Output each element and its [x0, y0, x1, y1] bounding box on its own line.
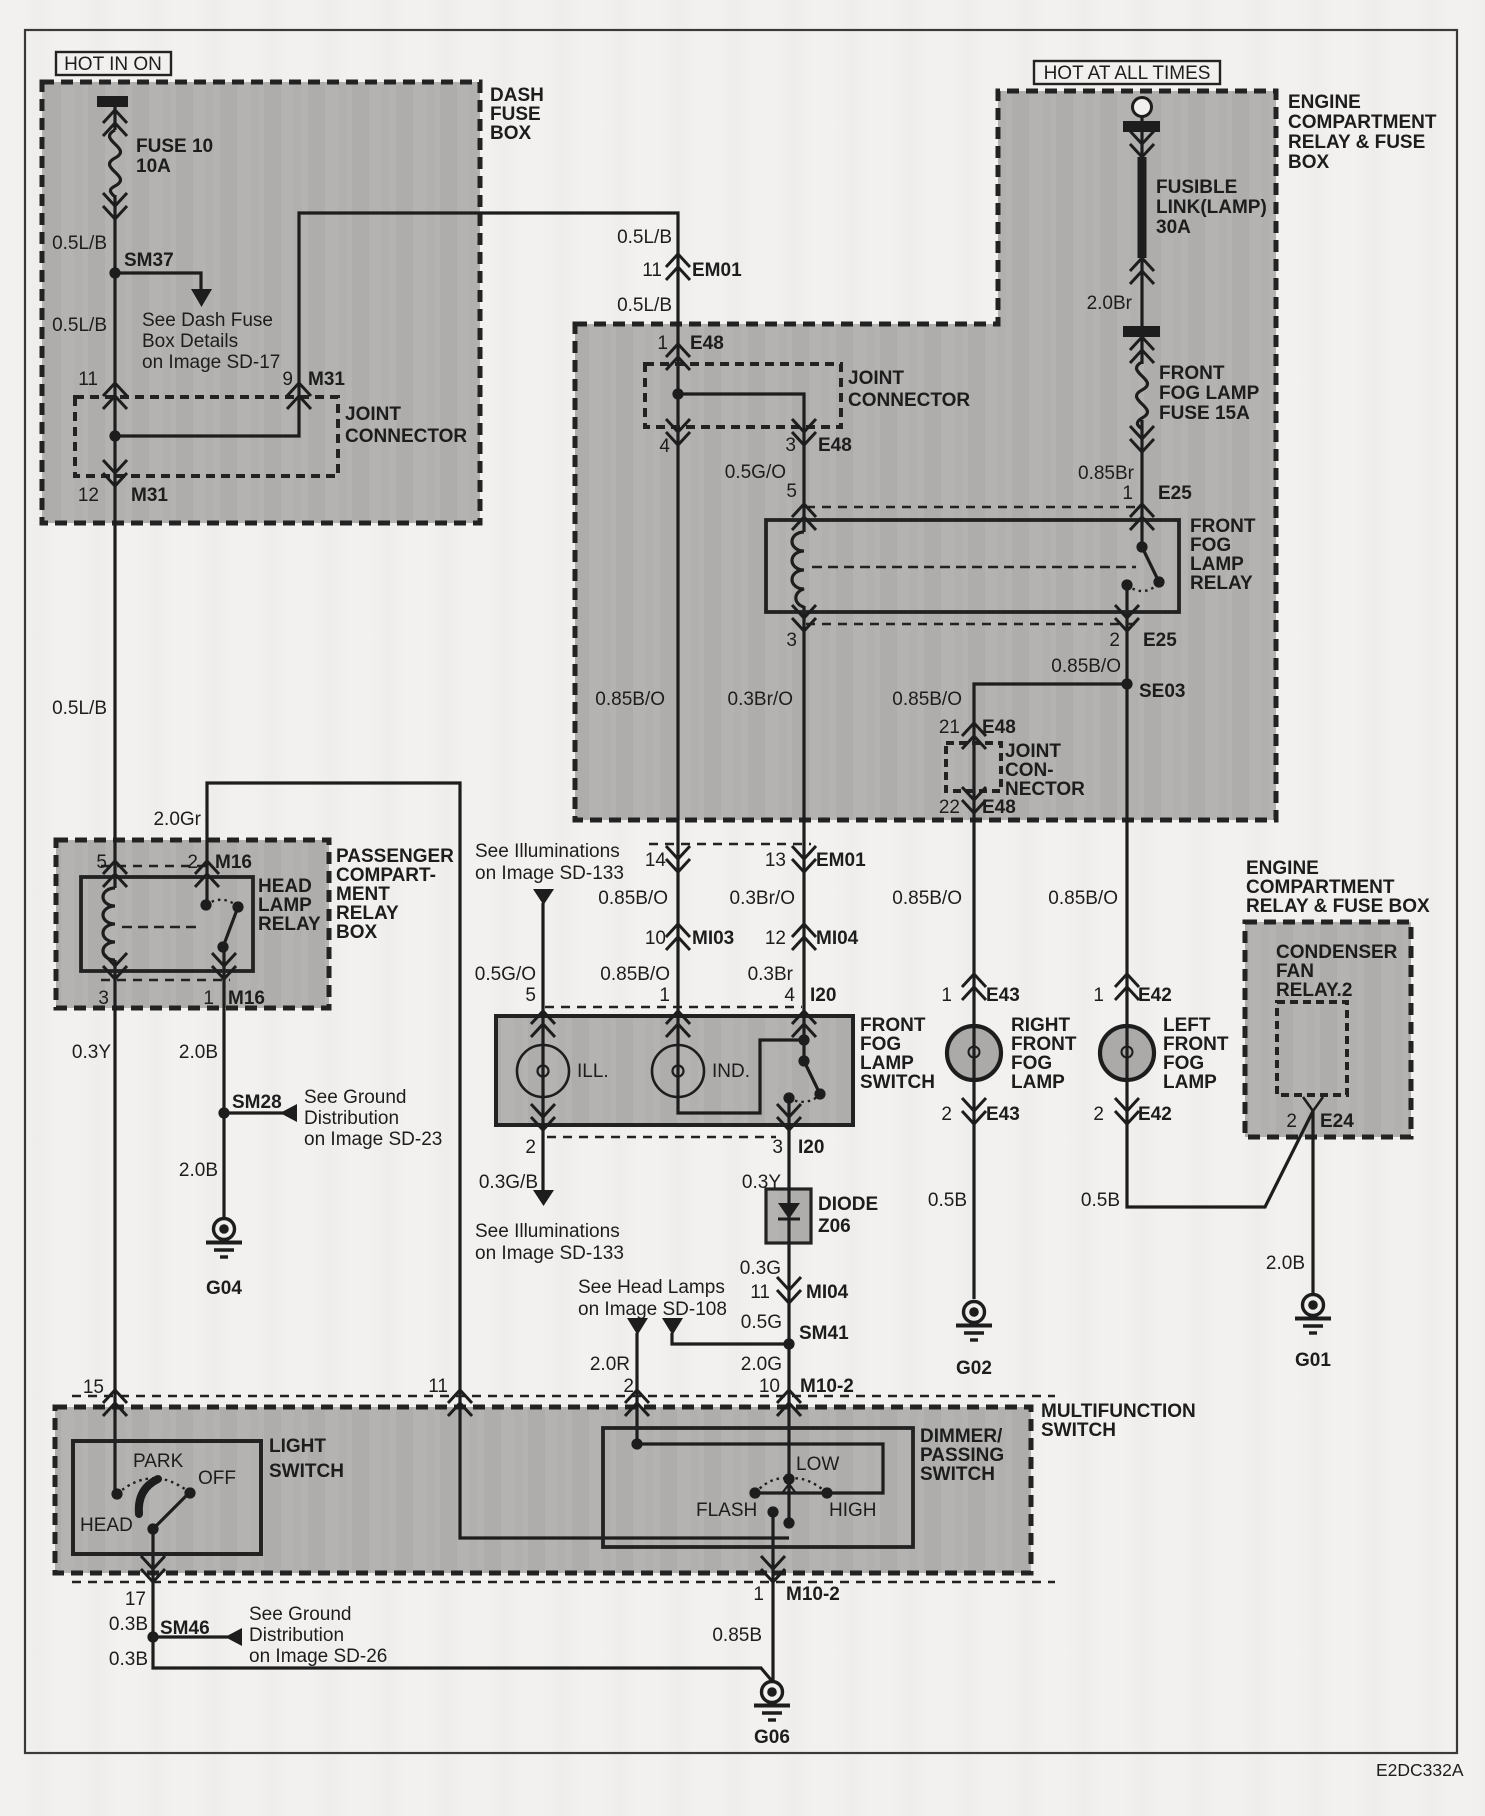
central + engine compartment shaded area: [575, 91, 1276, 820]
svg-text:2: 2: [1109, 630, 1120, 651]
relay contact: [200, 899, 211, 910]
svg-text:E25: E25: [1158, 483, 1192, 504]
ground G02: [956, 1302, 992, 1341]
svg-text:2.0R: 2.0R: [590, 1354, 630, 1375]
svg-text:I20: I20: [810, 985, 836, 1006]
svg-text:10: 10: [645, 928, 666, 949]
pin 21 E48: [962, 723, 986, 749]
svg-text:0.85B: 0.85B: [712, 1625, 762, 1646]
pin 1 E48: [666, 344, 690, 370]
reference arrow: see ground distribution SD-23: [280, 1104, 297, 1122]
pin 11 M31: [103, 383, 127, 409]
svg-text:FUSIBLE: FUSIBLE: [1156, 177, 1237, 198]
HOT IN ON label box: [56, 52, 171, 75]
dash fuse box shaded area: [42, 82, 480, 523]
svg-text:NECTOR: NECTOR: [1005, 779, 1085, 800]
lamp RIGHT FRONT FOG LAMP filament: [973, 1026, 975, 1046]
svg-text:E24: E24: [1320, 1111, 1354, 1132]
svg-text:on Image SD-26: on Image SD-26: [249, 1646, 387, 1667]
lamp IND: [652, 1045, 704, 1097]
svg-text:10: 10: [759, 1376, 780, 1397]
wire: light switch pivot to pin17, SM46, 0.3B run to G06: [153, 1529, 772, 1681]
svg-text:0.5B: 0.5B: [1081, 1190, 1120, 1211]
pin 10 MI03: [666, 924, 690, 950]
pin 5 I20: [531, 1011, 555, 1037]
svg-text:MULTIFUNCTION: MULTIFUNCTION: [1041, 1401, 1196, 1422]
svg-text:DIODE: DIODE: [818, 1194, 878, 1215]
svg-text:10A: 10A: [136, 156, 171, 177]
svg-text:M31: M31: [308, 369, 345, 390]
svg-text:5: 5: [786, 481, 797, 502]
relay internal dashed link: [812, 566, 1136, 568]
wire: fuse10 output 0.5L/B column (dash fuse box to light switch pin 15): [113, 107, 116, 1494]
pin 11 MI04: [777, 1277, 801, 1303]
svg-text:LINK(LAMP): LINK(LAMP): [1156, 197, 1267, 218]
svg-text:CONNECTOR: CONNECTOR: [848, 390, 970, 411]
wire: 2.0Gr headlamp relay pin2 to multifunction pin 11, to dimmer: [207, 783, 789, 1538]
svg-text:0.85B/O: 0.85B/O: [1048, 888, 1118, 909]
svg-text:0.85B/O: 0.85B/O: [892, 888, 962, 909]
svg-text:See Illuminations: See Illuminations: [475, 841, 620, 862]
junction node E48: [672, 388, 683, 399]
I20 pin row bottom (dashed): [547, 1136, 776, 1139]
svg-text:CONNECTOR: CONNECTOR: [345, 426, 467, 447]
svg-text:FOG: FOG: [860, 1034, 901, 1055]
svg-text:0.3B: 0.3B: [109, 1649, 148, 1670]
relay U2 HEAD LAMP RELAY box: [81, 877, 253, 971]
svg-text:JOINT: JOINT: [848, 368, 904, 389]
wire: relay blade contact: [1142, 547, 1159, 582]
svg-text:2.0B: 2.0B: [1266, 1253, 1305, 1274]
svg-text:See Ground: See Ground: [304, 1087, 406, 1108]
front fog lamp fuse 15A element: [1137, 362, 1148, 429]
svg-text:LAMP: LAMP: [1011, 1072, 1065, 1093]
svg-text:OFF: OFF: [198, 1468, 236, 1489]
svg-text:2.0B: 2.0B: [179, 1160, 218, 1181]
pin 1 E43: [962, 974, 986, 1000]
svg-text:LIGHT: LIGHT: [269, 1436, 326, 1457]
svg-text:SE03: SE03: [1139, 681, 1185, 702]
svg-text:FRONT: FRONT: [1190, 516, 1256, 537]
svg-text:M10-2: M10-2: [786, 1584, 840, 1605]
svg-text:COMPART-: COMPART-: [336, 865, 436, 886]
engine compartment relay & fuse box (condenser) shaded area: [1245, 922, 1411, 1137]
svg-text:G01: G01: [1295, 1350, 1331, 1371]
svg-text:1: 1: [203, 988, 214, 1009]
svg-text:ENGINE: ENGINE: [1246, 858, 1319, 879]
svg-text:13: 13: [765, 850, 786, 871]
svg-text:EM01: EM01: [816, 850, 866, 871]
pin 15: [103, 1390, 127, 1416]
svg-text:0.85Br: 0.85Br: [1078, 463, 1135, 484]
svg-text:E2DC332A: E2DC332A: [1376, 1760, 1464, 1780]
svg-text:MENT: MENT: [336, 884, 390, 905]
pin 3 E48: [792, 419, 816, 445]
svg-text:1: 1: [659, 985, 670, 1006]
svg-text:1: 1: [753, 1584, 764, 1605]
svg-text:2.0B: 2.0B: [179, 1042, 218, 1063]
diode Z06 box (fill layer): [766, 1189, 811, 1243]
svg-text:BOX: BOX: [490, 123, 532, 144]
node SM28: [218, 1107, 229, 1118]
svg-text:FRONT: FRONT: [1011, 1034, 1077, 1055]
E25 pin row (dashed): [806, 506, 1141, 509]
svg-text:11: 11: [428, 1376, 448, 1397]
switch S2 LIGHT SWITCH box: [73, 1441, 261, 1554]
svg-text:LOW: LOW: [796, 1454, 839, 1475]
svg-text:LAMP: LAMP: [1190, 554, 1244, 575]
svg-text:HOT IN ON: HOT IN ON: [64, 54, 162, 75]
svg-text:LAMP: LAMP: [1163, 1072, 1217, 1093]
svg-text:E43: E43: [986, 985, 1020, 1006]
relay coil: [792, 532, 804, 607]
svg-text:RELAY: RELAY: [336, 903, 399, 924]
switch contacts: [798, 1034, 809, 1045]
svg-text:COMPARTMENT: COMPARTMENT: [1288, 112, 1437, 133]
svg-text:PASSENGER: PASSENGER: [336, 846, 454, 867]
svg-text:SWITCH: SWITCH: [920, 1464, 995, 1485]
svg-text:FUSE: FUSE: [490, 104, 541, 125]
node SM37: [109, 267, 120, 278]
node SM41: [783, 1338, 794, 1349]
svg-text:0.5L/B: 0.5L/B: [52, 233, 107, 254]
svg-text:RIGHT: RIGHT: [1011, 1015, 1071, 1036]
svg-text:Box Details: Box Details: [142, 331, 238, 352]
svg-text:22: 22: [939, 797, 960, 818]
svg-text:0.5G/O: 0.5G/O: [725, 462, 786, 483]
pin 4 E48: [666, 419, 690, 445]
svg-text:30A: 30A: [1156, 217, 1191, 238]
svg-text:FLASH: FLASH: [696, 1500, 757, 1521]
svg-text:2: 2: [525, 1137, 536, 1158]
svg-text:0.85B/O: 0.85B/O: [1051, 656, 1121, 677]
M16 pin row bottom (dashed): [101, 979, 230, 982]
svg-text:E48: E48: [818, 435, 852, 456]
svg-text:2: 2: [187, 852, 198, 873]
relay contact: [1136, 541, 1147, 552]
pin 1 E42: [1115, 974, 1139, 1000]
svg-text:12: 12: [765, 928, 786, 949]
svg-text:HOT AT ALL TIMES: HOT AT ALL TIMES: [1044, 63, 1211, 84]
pin 1 M16: [212, 953, 236, 979]
multifunction switch shaded area: [55, 1407, 1031, 1573]
svg-text:0.3G: 0.3G: [740, 1258, 781, 1279]
wire: SM37 branch to See Dash Fuse Box Details: [115, 273, 201, 289]
svg-text:E42: E42: [1138, 985, 1172, 1006]
fuse 10 element (wavy): [110, 130, 121, 197]
svg-text:JOINT: JOINT: [345, 404, 401, 425]
svg-text:0.3G/B: 0.3G/B: [479, 1172, 538, 1193]
svg-text:17: 17: [125, 1589, 146, 1610]
left front fog lamp body: [1100, 1026, 1154, 1080]
wire: SM41 branch to See Head Lamps: [672, 1333, 789, 1344]
light switch HEAD position wiper (thick arc): [139, 1479, 158, 1514]
svg-text:9: 9: [282, 369, 293, 390]
svg-text:0.3Br/O: 0.3Br/O: [728, 689, 793, 710]
svg-text:E25: E25: [1143, 630, 1177, 651]
svg-text:See Head Lamps: See Head Lamps: [578, 1277, 725, 1298]
wire: illumination column 0.5G/O to fog switch ILL pin5, pin2 0.3G/B out: [541, 903, 544, 1190]
svg-text:See Dash Fuse: See Dash Fuse: [142, 310, 273, 331]
wire: SM46 branch: [153, 1635, 228, 1638]
svg-text:2: 2: [941, 1104, 952, 1125]
reference arrow: see ground distribution SD-26: [225, 1628, 242, 1646]
svg-text:1: 1: [941, 985, 952, 1006]
pin 2 I20: [531, 1104, 555, 1130]
svg-text:2: 2: [1286, 1111, 1297, 1132]
pin 11: [448, 1390, 472, 1416]
pin 11 EM01: [666, 254, 690, 280]
svg-text:0.3Br: 0.3Br: [748, 964, 794, 985]
svg-text:M10-2: M10-2: [800, 1376, 854, 1397]
svg-text:12: 12: [78, 485, 99, 506]
svg-text:SWITCH: SWITCH: [269, 1461, 344, 1482]
condenser fan relay.2 inner box: [1277, 1002, 1347, 1095]
node SM46: [147, 1631, 158, 1642]
svg-text:0.3B: 0.3B: [109, 1614, 148, 1635]
relay U1 FRONT FOG LAMP RELAY box: [766, 520, 1179, 612]
pin 2 E42: [1115, 1098, 1139, 1124]
svg-text:0.5G: 0.5G: [741, 1312, 782, 1333]
front fog lamp switch box (fill layer): [496, 1016, 853, 1125]
wire: joint connector M31 pin9 riser to EM01 pin 11 (0.5L/B): [115, 213, 678, 436]
svg-text:11: 11: [78, 369, 98, 390]
svg-text:2.0Br: 2.0Br: [1087, 293, 1133, 314]
svg-text:ILL.: ILL.: [577, 1061, 609, 1082]
svg-text:SM37: SM37: [124, 250, 174, 271]
svg-text:LEFT: LEFT: [1163, 1015, 1211, 1036]
svg-text:11: 11: [750, 1282, 770, 1303]
svg-text:2: 2: [1093, 1104, 1104, 1125]
diode Z06 symbol: [778, 1203, 800, 1219]
svg-text:11: 11: [642, 260, 662, 281]
wire: 2.0R column dimmer pin2 to See Head Lamps: [635, 1333, 638, 1444]
svg-text:0.3Y: 0.3Y: [742, 1172, 781, 1193]
wire: SM28 branch: [224, 1111, 283, 1114]
pin 4 I20: [792, 1011, 816, 1037]
light switch contacts: [111, 1488, 122, 1499]
svg-text:DIMMER/: DIMMER/: [920, 1426, 1003, 1447]
svg-text:5: 5: [96, 852, 107, 873]
pin 1 M10-2: [761, 1556, 785, 1582]
wire: relay pin2 E25 0.85B/O down through SE03 to left fog lamp and E24: [1127, 585, 1313, 1207]
pin 3 M16: [103, 953, 127, 979]
svg-text:0.5L/B: 0.5L/B: [52, 698, 107, 719]
svg-text:E43: E43: [986, 1104, 1020, 1125]
svg-text:1: 1: [1093, 985, 1104, 1006]
svg-text:0.5B: 0.5B: [928, 1190, 967, 1211]
svg-text:CON-: CON-: [1005, 760, 1054, 781]
reference arrow: see dash fuse box details: [191, 289, 212, 307]
svg-text:FRONT: FRONT: [1159, 363, 1225, 384]
svg-text:2: 2: [623, 1376, 634, 1397]
svg-text:SM41: SM41: [799, 1323, 849, 1344]
ground G04: [206, 1219, 242, 1258]
pin 3 I20: [777, 1104, 801, 1130]
svg-text:G06: G06: [754, 1727, 790, 1748]
pin 2 M10-2: [625, 1390, 649, 1416]
svg-text:JOINT: JOINT: [1005, 741, 1061, 762]
svg-text:HEAD: HEAD: [80, 1515, 133, 1536]
svg-text:FRONT: FRONT: [1163, 1034, 1229, 1055]
svg-text:DASH: DASH: [490, 85, 544, 106]
svg-text:21: 21: [939, 717, 960, 738]
svg-text:on Image SD-133: on Image SD-133: [475, 1243, 624, 1264]
svg-text:0.5L/B: 0.5L/B: [617, 295, 672, 316]
svg-text:MI03: MI03: [692, 928, 734, 949]
svg-text:FUSE 10: FUSE 10: [136, 136, 213, 157]
svg-text:ENGINE: ENGINE: [1288, 92, 1361, 113]
svg-text:COMPARTMENT: COMPARTMENT: [1246, 877, 1395, 898]
junction node in M31 connector: [109, 430, 120, 441]
pin 22 E48: [962, 787, 986, 813]
svg-text:E48: E48: [690, 333, 724, 354]
svg-text:0.85B/O: 0.85B/O: [600, 964, 670, 985]
svg-text:14: 14: [645, 850, 667, 871]
svg-text:SM28: SM28: [232, 1092, 282, 1113]
svg-text:4: 4: [784, 985, 795, 1006]
M10-2 pin row top (dashed): [72, 1395, 1055, 1398]
svg-text:LAMP: LAMP: [258, 895, 312, 916]
svg-text:0.3Y: 0.3Y: [72, 1042, 111, 1063]
svg-text:HEAD: HEAD: [258, 876, 312, 897]
svg-text:G04: G04: [206, 1278, 242, 1299]
svg-text:FOG: FOG: [1163, 1053, 1204, 1074]
node SE03: [1121, 678, 1132, 689]
wire: fog switch pin3 column through diode, SM41, to dimmer LOW: [787, 1098, 790, 1523]
fuse terminal bar: [1123, 326, 1160, 337]
pin 5 M16: [103, 861, 127, 887]
svg-text:See Illuminations: See Illuminations: [475, 1221, 620, 1242]
svg-text:FOG: FOG: [1011, 1053, 1052, 1074]
svg-text:3: 3: [98, 988, 109, 1009]
svg-text:RELAY & FUSE: RELAY & FUSE: [1288, 132, 1425, 153]
wire: E24 pin2 2.0B to G01: [1311, 1111, 1314, 1294]
fuse F10 terminal bar: [97, 96, 128, 107]
svg-text:2.0Gr: 2.0Gr: [153, 809, 201, 830]
pin 1 E25: [1130, 504, 1154, 530]
svg-text:3: 3: [772, 1137, 783, 1158]
svg-text:on Image SD-108: on Image SD-108: [578, 1299, 727, 1320]
svg-text:See Ground: See Ground: [249, 1604, 351, 1625]
lamp ILL: [517, 1045, 569, 1097]
switch S3 DIMMER/PASSING SWITCH box: [603, 1428, 913, 1547]
svg-text:FRONT: FRONT: [860, 1015, 926, 1036]
svg-text:SM46: SM46: [160, 1618, 210, 1639]
joint connector M31 box: [75, 397, 338, 476]
pin 10 M10-2: [777, 1390, 801, 1416]
svg-text:2.0G: 2.0G: [741, 1354, 782, 1375]
svg-text:M16: M16: [228, 988, 265, 1009]
svg-text:0.85B/O: 0.85B/O: [598, 888, 668, 909]
ground G01: [1295, 1295, 1331, 1334]
svg-text:on Image SD-23: on Image SD-23: [304, 1129, 442, 1150]
svg-text:FUSE 15A: FUSE 15A: [1159, 403, 1250, 424]
pin 17: [141, 1556, 165, 1582]
svg-text:HIGH: HIGH: [829, 1500, 877, 1521]
svg-text:FAN: FAN: [1276, 961, 1314, 982]
svg-text:5: 5: [525, 985, 536, 1006]
svg-text:Distribution: Distribution: [304, 1108, 399, 1129]
EM01 pin row (dashed): [649, 843, 811, 846]
lamp LEFT FRONT FOG LAMP filament: [1126, 1026, 1128, 1046]
joint connector E48 (21/22) box: [946, 743, 1001, 791]
svg-text:FOG LAMP: FOG LAMP: [1159, 383, 1260, 404]
svg-text:RELAY & FUSE BOX: RELAY & FUSE BOX: [1246, 896, 1430, 917]
pin 12 MI04: [792, 924, 816, 950]
wire: dimmer inner contact rail (pin2 to FLASH/HIGH): [637, 1444, 883, 1493]
svg-text:G02: G02: [956, 1358, 992, 1379]
wire: light switch blade to OFF: [153, 1496, 186, 1529]
svg-text:M31: M31: [131, 485, 168, 506]
svg-text:1: 1: [657, 333, 668, 354]
passenger compartment relay box shaded area: [56, 840, 329, 1008]
svg-text:SWITCH: SWITCH: [860, 1072, 935, 1093]
svg-text:0.5L/B: 0.5L/B: [52, 315, 107, 336]
pin 2 E43: [962, 1098, 986, 1124]
M10-2 pin row bottom (dashed): [72, 1581, 1055, 1584]
dimmer contacts: [631, 1438, 642, 1449]
wire: E48 pin4 column down to fog switch IND lamp, inner link: [678, 394, 804, 1113]
terminal bar: [1123, 121, 1160, 132]
svg-text:E42: E42: [1138, 1104, 1172, 1125]
svg-text:0.3Br/O: 0.3Br/O: [730, 888, 795, 909]
svg-text:BOX: BOX: [336, 922, 378, 943]
relay internal dashed link: [122, 926, 200, 928]
pin 1 I20: [666, 1011, 690, 1037]
pin 3 E25: [792, 605, 816, 631]
svg-text:MI04: MI04: [806, 1282, 849, 1303]
svg-text:E48: E48: [982, 717, 1016, 738]
svg-text:3: 3: [786, 630, 797, 651]
svg-text:0.85B/O: 0.85B/O: [595, 689, 665, 710]
svg-text:I20: I20: [798, 1137, 824, 1158]
head lamp relay coil: [103, 888, 115, 960]
pin 5 E25: [792, 504, 816, 530]
pin 14 EM01: [666, 846, 690, 872]
svg-text:15: 15: [83, 1377, 104, 1398]
ground G06: [754, 1682, 790, 1721]
svg-text:RELAY.2: RELAY.2: [1276, 980, 1352, 1001]
svg-text:0.85B/O: 0.85B/O: [892, 689, 962, 710]
pin 2 E25: [1115, 605, 1139, 631]
svg-text:RELAY: RELAY: [1190, 573, 1253, 594]
svg-text:LAMP: LAMP: [860, 1053, 914, 1074]
pin 2 M16: [195, 861, 219, 887]
svg-text:E48: E48: [982, 797, 1016, 818]
right front fog lamp body: [947, 1026, 1001, 1080]
fusible link (lamp) 30A: [1138, 157, 1147, 258]
battery terminal circle: [1133, 98, 1152, 117]
svg-text:3: 3: [785, 435, 796, 456]
svg-text:0.5L/B: 0.5L/B: [617, 227, 672, 248]
I20 pin row top (dashed): [545, 1006, 802, 1009]
svg-text:RELAY: RELAY: [258, 914, 321, 935]
wire: dimmer blade to pin1 M10-2, 0.85B to G06: [771, 1512, 774, 1681]
reference arrow: see illuminations (out): [533, 1190, 554, 1206]
pin 13 EM01: [792, 846, 816, 872]
pin 2 E24: [1303, 1097, 1323, 1111]
pin 12 M31: [103, 460, 127, 486]
svg-text:BOX: BOX: [1288, 152, 1330, 173]
M16 pin row top (dashed): [101, 865, 213, 868]
svg-text:PARK: PARK: [133, 1451, 184, 1472]
svg-text:EM01: EM01: [692, 260, 742, 281]
HOT AT ALL TIMES label box: [1034, 61, 1220, 84]
svg-text:0.5G/O: 0.5G/O: [475, 964, 536, 985]
wire: fog switch blade pin4: [804, 1061, 820, 1094]
svg-text:M16: M16: [215, 852, 252, 873]
